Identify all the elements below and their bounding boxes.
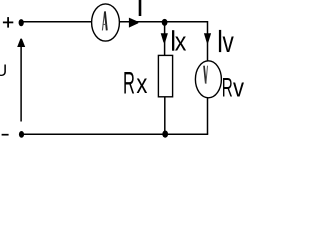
node junction at Rx branch (bottom): [162, 131, 168, 138]
voltage arrow U (shaft): [20, 46, 22, 122]
svg-text:v: v: [233, 74, 244, 102]
voltmeter letter V: [204, 66, 208, 84]
node junction at Rx branch (top): [162, 19, 168, 26]
label Iv: [219, 30, 221, 52]
ammeter letter A: [102, 11, 106, 30]
wire top (node + to ammeter to Rx node to corner): [21, 21, 208, 23]
terminal - (negative source terminal): [2, 134, 9, 136]
wire bottom (return wire): [21, 133, 208, 135]
wire Rx branch bottom (resistor to bottom node): [164, 97, 166, 134]
wire top-right corner down to voltmeter: [207, 21, 209, 61]
svg-text:R: R: [123, 64, 135, 100]
current arrow Ix: [161, 33, 168, 42]
svg-text:R: R: [222, 71, 233, 102]
current arrow I on top wire: [129, 18, 138, 28]
node bottom-left junction: [19, 131, 24, 138]
svg-text:x: x: [136, 68, 147, 99]
current arrow Iv: [204, 33, 211, 42]
resistor Rx body: [158, 55, 172, 96]
label Ix: [172, 30, 174, 51]
svg-text:x: x: [175, 27, 187, 57]
ammeter A: [92, 4, 120, 41]
wire voltmeter bottom to bottom wire: [207, 98, 209, 135]
svg-text:v: v: [223, 26, 234, 59]
svg-text:U: U: [0, 62, 7, 80]
label I (clipped at top edge): [139, 0, 142, 16]
terminal + (positive source terminal): [3, 17, 13, 28]
wire Rx branch top (node to resistor): [164, 21, 166, 56]
node top-left junction: [19, 19, 24, 26]
voltage arrow U (head, pointing up): [17, 39, 25, 47]
voltmeter V: [195, 61, 221, 98]
